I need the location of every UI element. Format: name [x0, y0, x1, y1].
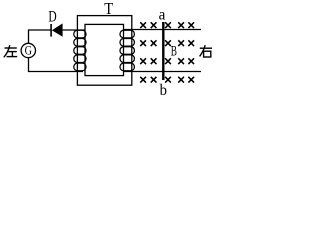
svg-text:B: B	[171, 42, 177, 59]
svg-text:G: G	[25, 43, 33, 57]
svg-text:D: D	[48, 9, 56, 26]
svg-text:a: a	[159, 6, 166, 23]
svg-text:b: b	[160, 81, 168, 99]
svg-text:T: T	[104, 0, 113, 18]
